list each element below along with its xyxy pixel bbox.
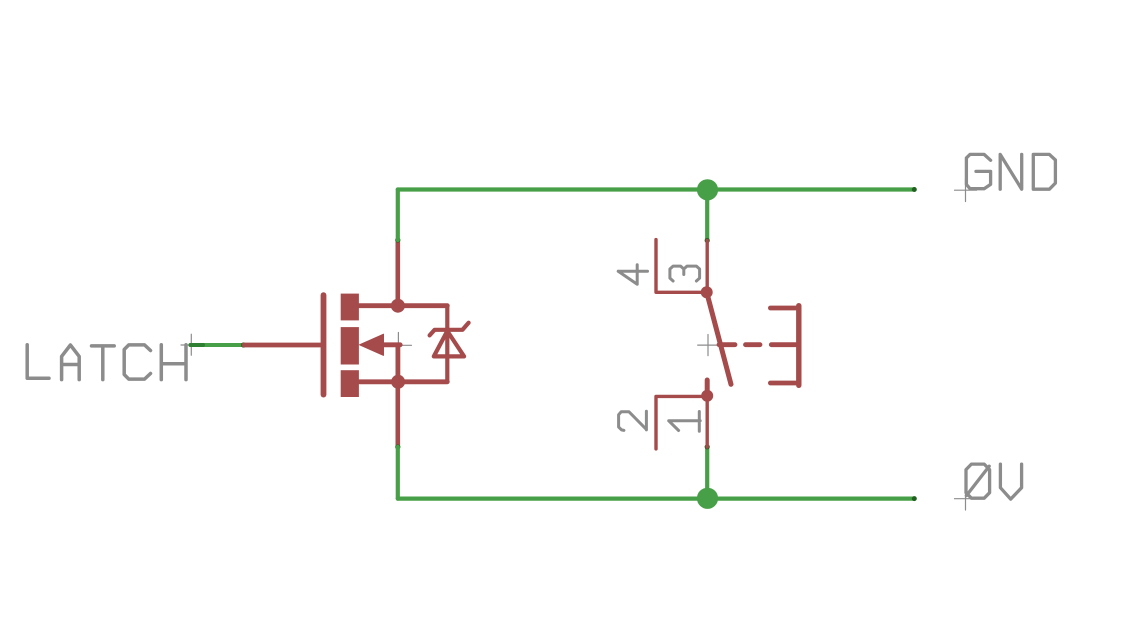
switch S1 pin 2 xyxy=(656,396,704,449)
wire drain pin (red) xyxy=(395,240,400,306)
wire net 0V left vertical xyxy=(396,447,400,499)
pin number 4 xyxy=(618,265,647,285)
switch S1 origin cross xyxy=(698,335,719,356)
wire net GND switch drop xyxy=(705,190,709,241)
wire net 0V bottom rail xyxy=(398,497,914,501)
switch S1 pin 4 xyxy=(656,240,704,293)
label LATCH xyxy=(27,345,186,380)
label GND xyxy=(966,154,1055,189)
switch S1 actuator slant xyxy=(707,292,731,384)
pin number 1 xyxy=(669,412,701,432)
node 0V junction dot xyxy=(697,488,718,509)
junction dot pin/wire bottom-left xyxy=(395,444,400,449)
node drain junction dot xyxy=(391,299,405,313)
switch S1 top contact dot xyxy=(701,286,713,298)
transistor Q1 origin cross xyxy=(386,333,412,359)
wire net 0V switch rise xyxy=(705,447,709,499)
label 0V xyxy=(966,464,1022,499)
wire net GND top rail xyxy=(398,187,914,191)
label-origin cross GND xyxy=(955,179,977,202)
switch S1 bottom contact dot xyxy=(701,390,713,402)
switch S1 pin 3 xyxy=(706,241,709,293)
wire net LATCH dark overlay xyxy=(191,343,204,347)
switch S1 pin 1 xyxy=(706,396,709,447)
transistor Q1 substrate arrow xyxy=(360,334,384,355)
junction dot pin/wire top-left xyxy=(395,237,400,242)
wire net LATCH (green) xyxy=(191,343,245,347)
junction dot wire/pin LATCH xyxy=(241,342,246,347)
junction dot pin1/wire xyxy=(705,444,710,449)
transistor Q1 channel blocks xyxy=(341,294,359,397)
switch S1 actuator bracket xyxy=(770,306,798,386)
zener body diode D1 xyxy=(430,306,469,382)
pin number 3 xyxy=(670,266,700,281)
switch S1 bottom contact stub xyxy=(705,380,710,393)
transistor Q1 drain connection xyxy=(359,303,447,308)
transistor Q1 source connection xyxy=(359,379,447,384)
node GND junction dot xyxy=(697,179,718,200)
pin number 2 xyxy=(619,411,647,430)
transistor Q1 gate lead xyxy=(244,343,321,348)
wire net GND left vertical xyxy=(396,190,400,241)
transistor Q1 substrate link xyxy=(384,345,401,382)
junction dot pin3/wire xyxy=(705,238,710,243)
switch S1 linkage dashes xyxy=(719,342,760,347)
label-origin cross LATCH xyxy=(181,334,202,355)
transistor Q1 gate bar xyxy=(321,295,327,394)
label-origin cross 0V xyxy=(955,488,977,511)
node source junction dot xyxy=(391,375,405,389)
wire source pin (red) xyxy=(395,382,400,447)
